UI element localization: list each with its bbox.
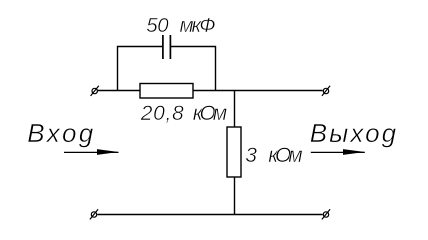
svg-text:20,8: 20,8: [140, 102, 184, 125]
svg-text:Выхоg: Выхоg: [310, 118, 397, 148]
svg-text:3: 3: [245, 144, 257, 167]
svg-text:кОм: кОм: [193, 102, 228, 125]
svg-text:Bxog: Bxog: [27, 118, 94, 148]
svg-text:50: 50: [146, 14, 169, 37]
svg-text:кОм: кОм: [268, 144, 303, 167]
svg-text:мкФ: мкФ: [180, 14, 216, 37]
